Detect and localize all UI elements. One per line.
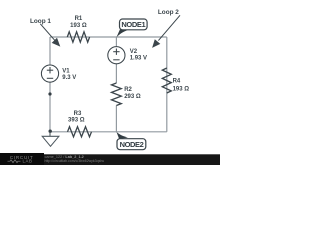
- node NODE2 flag pointer: [116, 132, 128, 140]
- resistor R2: [112, 83, 122, 106]
- svg-text:LAB: LAB: [22, 159, 32, 164]
- wire top (node1 net: V1+ to R1 to NODE1 to R4 top): [50, 36, 167, 38]
- svg-text:R3: R3: [74, 111, 82, 117]
- svg-text:V1: V1: [62, 69, 70, 75]
- svg-text:R2: R2: [124, 87, 132, 93]
- node NODE1 flag pointer: [116, 30, 127, 38]
- svg-text:NODE2: NODE2: [120, 140, 144, 149]
- Loop 2 arrow line: [158, 15, 180, 40]
- svg-text:9.3 V: 9.3 V: [62, 75, 76, 81]
- voltage source V1: [41, 65, 58, 82]
- watermark logo LAB + zigzag: [8, 160, 21, 163]
- junction dot at ground node: [49, 130, 52, 133]
- svg-text:V2: V2: [130, 49, 138, 55]
- svg-text:Loop 2: Loop 2: [158, 9, 179, 16]
- wire middle upper (NODE1 to V2 top): [115, 37, 117, 47]
- watermark bar: [0, 154, 220, 165]
- svg-text:1.93 V: 1.93 V: [130, 56, 147, 62]
- node NODE2 box: [117, 139, 146, 150]
- voltage source V2: [108, 47, 125, 64]
- svg-text:NODE1: NODE1: [121, 20, 145, 29]
- svg-text:293 Ω: 293 Ω: [124, 94, 141, 100]
- wire middle lower (R2 bottom to NODE2 junction): [115, 106, 117, 132]
- wire bottom (ground junction to R3 to NODE2 to R4 bottom): [50, 131, 167, 133]
- ground: [42, 132, 59, 147]
- junction dot on left wire: [48, 92, 51, 95]
- svg-text:393 Ω: 393 Ω: [68, 118, 85, 124]
- wire left upper (top corner down to V1 top): [49, 37, 51, 65]
- svg-text:R1: R1: [75, 16, 83, 22]
- node NODE1 box: [120, 19, 148, 30]
- watermark logo block: [0, 153, 44, 165]
- wire middle mid (V2 bottom to R2 top): [115, 64, 117, 83]
- resistor R1: [67, 32, 89, 42]
- svg-text:193 Ω: 193 Ω: [173, 86, 190, 92]
- svg-text:193 Ω: 193 Ω: [70, 23, 87, 29]
- svg-text:http://circuitlab.com/c/3bw62w: http://circuitlab.com/c/3bw62wyk3qshu: [45, 159, 105, 163]
- resistor R4: [162, 68, 171, 93]
- wire right (R4 branch vertical): [166, 37, 168, 132]
- Loop 1 arrow line: [40, 24, 55, 41]
- Loop 1 arrowhead: [52, 38, 61, 47]
- svg-text:R4: R4: [173, 78, 181, 84]
- Loop 2 arrowhead: [152, 39, 160, 48]
- resistor R3: [68, 127, 92, 137]
- wire left lower (V1 bottom to ground junction): [49, 82, 51, 132]
